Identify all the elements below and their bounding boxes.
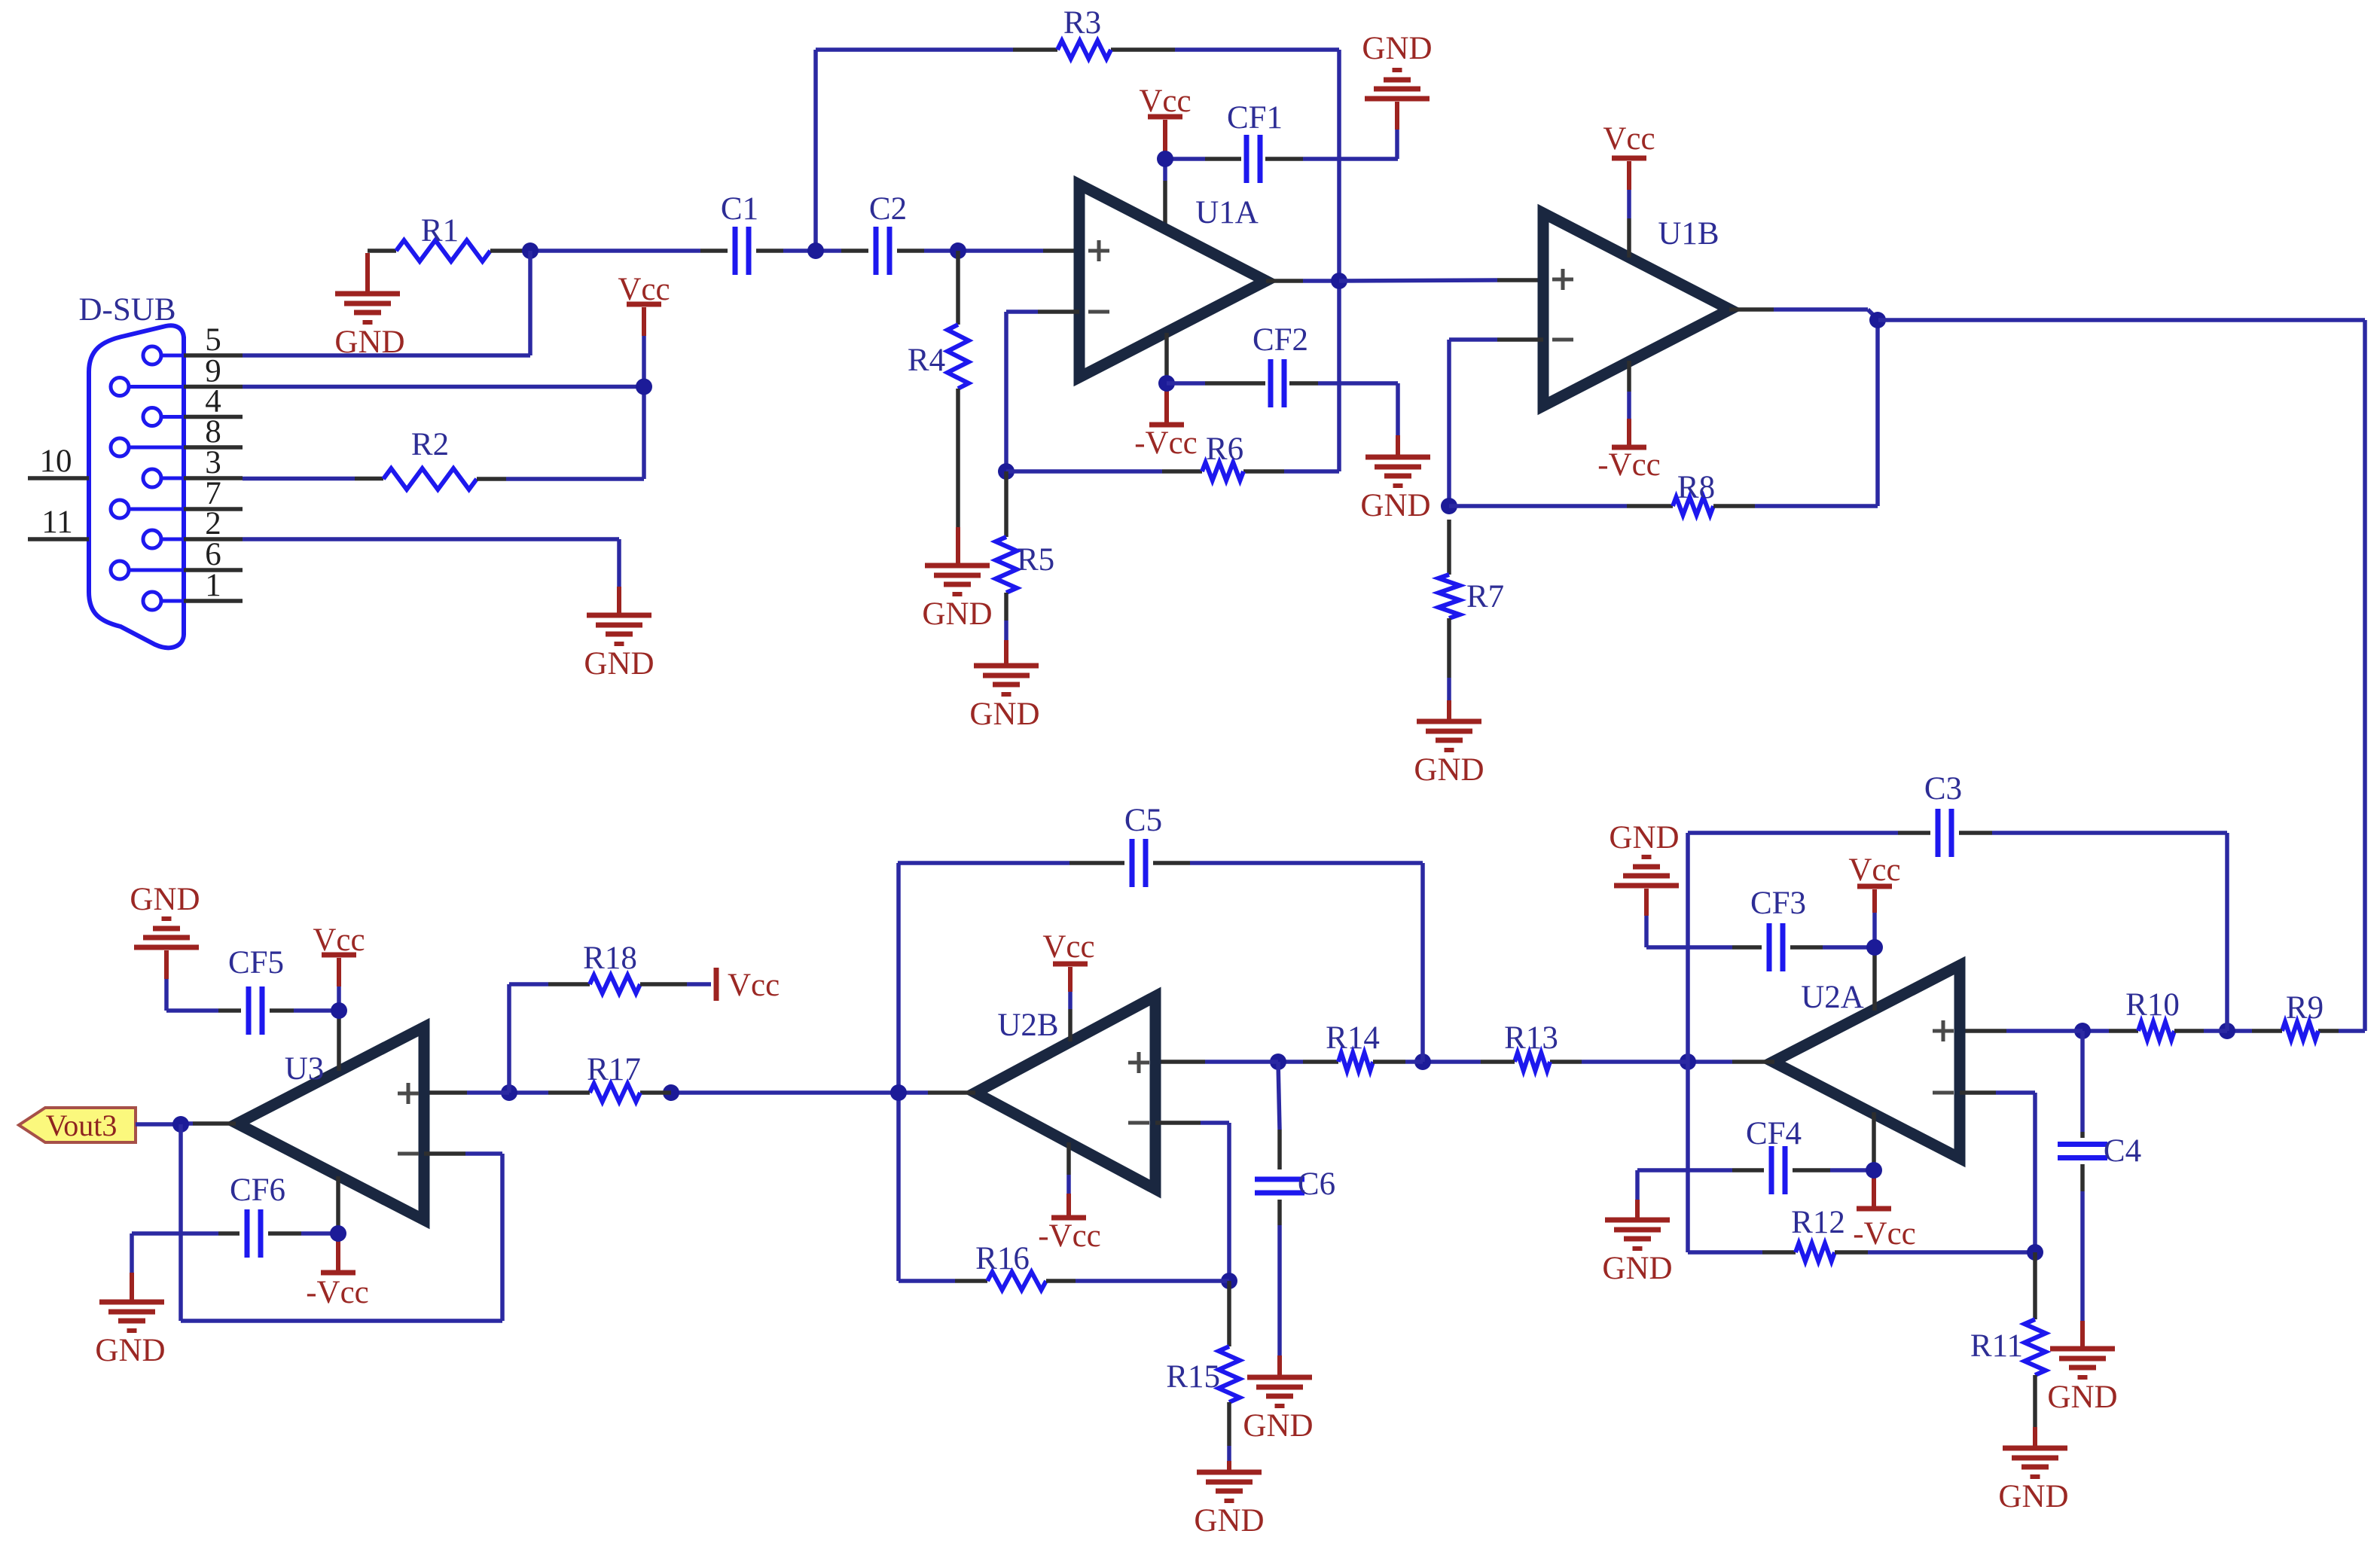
svg-text:U1A: U1A (1195, 195, 1259, 230)
ground GND left of CF4 (1602, 1170, 1672, 1286)
svg-text:R9: R9 (2286, 990, 2324, 1026)
svg-text:Vout3: Vout3 (46, 1108, 117, 1142)
svg-text:-Vcc: -Vcc (306, 1275, 369, 1310)
wire CF1 row (1165, 157, 1398, 161)
capacitor C1 (721, 191, 758, 275)
junction node CF4/-Vcc (1866, 1162, 1882, 1179)
resistor R6 (1162, 431, 1243, 480)
wire U1B output to right edge (1878, 320, 2365, 1031)
wire CF4 row (1637, 1168, 1874, 1172)
svg-text:GND: GND (1609, 820, 1679, 855)
wire C3 right vertical (2225, 833, 2229, 1031)
capacitor C2 (869, 191, 907, 275)
pin 4 of D-SUB (143, 384, 243, 426)
wire C3 branch vertical (1686, 833, 1690, 1252)
wire CF6 row (132, 1231, 338, 1236)
wire R8 row (1449, 320, 1878, 506)
op-amp U1B (1543, 213, 1730, 406)
junction node U2B output/C5 (890, 1084, 907, 1101)
wire R16 row (899, 1279, 1229, 1283)
svg-text:U2B: U2B (997, 1008, 1058, 1043)
ground GND below R15 (1194, 1472, 1264, 1538)
svg-text:8: 8 (205, 414, 221, 450)
connector D-SUB body (78, 292, 184, 648)
svg-text:Vcc: Vcc (1848, 852, 1900, 888)
power Vcc of U3 (313, 922, 365, 1071)
svg-text:U3: U3 (285, 1051, 325, 1087)
junction dot Vcc/CF1 (1157, 151, 1173, 167)
svg-text:C4: C4 (2104, 1133, 2141, 1169)
capacitor C3 (1924, 771, 1962, 857)
capacitor C6 (1255, 1062, 1335, 1202)
pin 6 of D-SUB (111, 537, 243, 579)
junction node U1A output (1331, 273, 1347, 289)
resistor R15 (1166, 1281, 1240, 1472)
power Vcc of U1A (1139, 84, 1191, 229)
junction node CF6/-Vcc (330, 1225, 346, 1242)
resistor R17 (509, 1052, 671, 1102)
svg-text:CF3: CF3 (1750, 886, 1806, 921)
svg-text:R4: R4 (908, 343, 945, 378)
svg-text:R17: R17 (587, 1052, 641, 1087)
svg-text:R10: R10 (2125, 987, 2180, 1023)
wire U2A inverting input (1960, 1093, 2035, 1252)
junction node R7/R8 (1441, 498, 1457, 514)
svg-text:GND: GND (1414, 752, 1484, 788)
resistor R3 (1057, 5, 1111, 59)
wire C3 row (1688, 831, 2227, 835)
wire U1B output (1729, 310, 1878, 320)
wire CF6 left to GND (130, 1233, 134, 1302)
capacitor CF3 (1750, 886, 1806, 971)
svg-text:C1: C1 (721, 191, 758, 227)
junction node R5/R6 (998, 463, 1015, 480)
wire U3 feedback loop (181, 1124, 502, 1321)
power Vcc right of R18 (716, 968, 780, 1003)
power Vcc of U2A (1848, 852, 1900, 1011)
pin 11 of D-SUB (28, 505, 89, 540)
pin 5 of D-SUB (143, 322, 243, 364)
capacitor CF5 (228, 945, 284, 1035)
svg-text:Vcc: Vcc (1139, 84, 1191, 119)
ground GND below R11 (1998, 1448, 2068, 1514)
svg-text:R6: R6 (1206, 431, 1243, 467)
power -Vcc of U2A (1853, 1112, 1916, 1252)
pin 3 of D-SUB (143, 445, 243, 487)
svg-text:CF1: CF1 (1227, 100, 1283, 136)
wire R10 to C4 node (2082, 1029, 2109, 1033)
op-amp U3 (237, 1027, 424, 1220)
junction node R1 right (522, 242, 539, 259)
svg-text:-Vcc: -Vcc (1038, 1218, 1101, 1254)
svg-text:GND: GND (95, 1333, 165, 1368)
resistor R4 (908, 251, 969, 566)
svg-text:GND: GND (1360, 488, 1430, 523)
resistor R16 (955, 1241, 1076, 1290)
junction node Vcc/CF5 (331, 1002, 347, 1019)
svg-text:-Vcc: -Vcc (1853, 1216, 1916, 1252)
svg-text:R1: R1 (421, 213, 459, 249)
junction node pin9/Vcc (636, 379, 652, 395)
power Vcc of U2B (1042, 929, 1094, 1041)
resistor R8 (1627, 470, 1755, 515)
svg-text:C6: C6 (1298, 1166, 1335, 1202)
junction node C3/R9/R10 (2219, 1023, 2235, 1039)
wire R18 branch (509, 984, 548, 1093)
ground GND below R1 (334, 253, 404, 360)
ground GND below R7 (1414, 721, 1484, 788)
pin 2 of D-SUB (143, 506, 243, 548)
junction node Vout3/feedback (172, 1116, 189, 1133)
op-amp U1A (1079, 184, 1266, 377)
ground GND below CF2 (1360, 457, 1430, 523)
wire U1A output (1266, 279, 1339, 283)
wire CF3 row (1646, 945, 1875, 950)
wire U2B output row (671, 1090, 975, 1095)
wire CF5 row (166, 1008, 339, 1013)
wire U1B inverting input (1449, 340, 1543, 506)
power -Vcc of U2B (1038, 1142, 1101, 1254)
svg-text:2: 2 (205, 506, 221, 541)
wire C5 row (898, 861, 1423, 865)
svg-text:11: 11 (41, 505, 72, 540)
svg-text:C3: C3 (1924, 771, 1962, 807)
ground GND below C6 (1243, 1377, 1313, 1444)
power -Vcc of U3 (306, 1176, 369, 1310)
capacitor C5 (1124, 803, 1162, 887)
svg-text:Vcc: Vcc (1603, 121, 1655, 157)
wire U2A output row (1688, 1060, 1774, 1064)
resistor R5 (996, 471, 1054, 666)
svg-text:GND: GND (130, 882, 200, 917)
capacitor CF6 (230, 1172, 285, 1258)
wire U2A + input (1960, 1029, 2082, 1033)
wire R6 row (1006, 469, 1339, 474)
svg-text:R15: R15 (1166, 1359, 1220, 1395)
svg-text:R2: R2 (411, 427, 449, 462)
capacitor CF2 (1253, 322, 1308, 407)
op-amp U2B (975, 996, 1155, 1189)
wire CF2 row (1167, 383, 1398, 457)
pin 7 of D-SUB (111, 476, 243, 518)
ground GND above CF3 (inverted) (1609, 820, 1679, 947)
svg-text:R11: R11 (1970, 1328, 2023, 1364)
resistor R14 (1303, 1020, 1423, 1071)
capacitor CF1 (1227, 100, 1283, 183)
svg-text:Vcc: Vcc (1042, 929, 1094, 965)
pin 10 of D-SUB (28, 444, 89, 479)
junction node U1B output (1869, 312, 1886, 328)
resistor R11 (1970, 1252, 2046, 1448)
wire C6 to GND (1277, 1200, 1282, 1377)
wire R1 to pin5 (528, 251, 532, 355)
svg-text:C2: C2 (869, 191, 907, 227)
wire pin9 row to Vcc (243, 385, 644, 389)
svg-text:GND: GND (584, 646, 654, 682)
svg-text:-Vcc: -Vcc (1134, 425, 1198, 461)
svg-text:R8: R8 (1677, 470, 1715, 505)
junction node R17/R18 (501, 1084, 517, 1101)
wire R14 to C6 node (1278, 1060, 1303, 1064)
wire R13 to C5 node (1423, 1060, 1481, 1064)
ground GND below C4 (2047, 1349, 2117, 1415)
svg-text:GND: GND (1602, 1251, 1672, 1286)
wire U1A output to U1B + (1339, 280, 1543, 281)
power Vcc right of D-SUB (618, 272, 670, 479)
svg-text:GND: GND (1362, 31, 1432, 66)
resistor R12 (1688, 1205, 2035, 1261)
power Vcc of U1B (1603, 121, 1655, 258)
wire Vout3 to U3 output (136, 1124, 236, 1124)
svg-text:CF2: CF2 (1253, 322, 1308, 358)
svg-text:GND: GND (1194, 1503, 1264, 1538)
ground top GND (inverted) at CF1 row (1362, 31, 1432, 159)
resistor R1 (368, 213, 530, 261)
wire vertical R3/output/R6 right leg (1337, 50, 1341, 471)
resistor R7 (1439, 520, 1504, 721)
svg-text:R14: R14 (1326, 1020, 1380, 1056)
svg-text:U1B: U1B (1658, 216, 1719, 252)
resistor R18 (548, 941, 711, 993)
resistor R10 (2109, 987, 2227, 1040)
capacitor CF4 (1746, 1116, 1802, 1194)
svg-text:10: 10 (40, 444, 72, 479)
svg-text:U2A: U2A (1801, 980, 1864, 1015)
wire C5 right vertical (1420, 863, 1425, 1062)
svg-text:R18: R18 (583, 941, 637, 976)
wire R9 to C3 node (2227, 1029, 2252, 1033)
svg-text:CF4: CF4 (1746, 1116, 1802, 1151)
svg-text:GND: GND (2047, 1380, 2117, 1415)
svg-text:R3: R3 (1063, 5, 1101, 41)
junction node C2/R4 (950, 242, 966, 259)
junction node R17 right (663, 1084, 679, 1101)
junction node C5/R13/R14 (1414, 1054, 1431, 1070)
svg-text:GND: GND (1243, 1408, 1313, 1444)
junction node C6/R14 (1270, 1054, 1286, 1070)
pin 1 of D-SUB (143, 568, 243, 610)
svg-text:CF6: CF6 (230, 1172, 285, 1208)
wire C4 to GND (2080, 1164, 2085, 1349)
svg-text:1: 1 (205, 568, 221, 603)
svg-text:6: 6 (205, 537, 221, 572)
svg-text:R7: R7 (1466, 579, 1504, 614)
resistor R13 (1481, 1020, 1688, 1071)
svg-text:CF5: CF5 (228, 945, 284, 980)
wire vertical C1-C2 junction to R3 (813, 50, 818, 251)
svg-text:Vcc: Vcc (728, 968, 780, 1003)
svg-text:C5: C5 (1124, 803, 1162, 838)
svg-text:D-SUB: D-SUB (78, 292, 175, 328)
wire main input row (530, 249, 1079, 253)
ground GND above CF5 (inverted) (130, 882, 200, 1011)
junction node R15/R16 (1221, 1273, 1237, 1289)
capacitor C4 (2058, 1031, 2141, 1169)
ground GND below pin2 wire (584, 615, 654, 682)
wire R17 to U3 + (424, 1090, 509, 1095)
wire U2B inverting input (1155, 1123, 1229, 1281)
junction node R11/R12 (2027, 1244, 2043, 1261)
svg-text:R12: R12 (1791, 1205, 1845, 1240)
resistor R2 on pin3 row (243, 427, 644, 489)
junction node Vcc/CF3 (1866, 939, 1883, 956)
wire U2B + input (1155, 1060, 1278, 1064)
svg-text:5: 5 (205, 322, 221, 358)
svg-text:3: 3 (205, 445, 221, 480)
junction dot -Vcc/CF2 (1158, 375, 1175, 392)
ground GND below R4 (922, 566, 992, 632)
svg-text:-Vcc: -Vcc (1597, 447, 1661, 483)
ground GND below R5 (969, 666, 1039, 732)
junction node C3 branch (1680, 1054, 1696, 1070)
wire R3 feedback top (816, 47, 1339, 52)
wire U1A inverting input (1006, 312, 1079, 471)
wire U2B feedback vertical (896, 863, 901, 1281)
svg-text:GND: GND (922, 596, 992, 632)
pin 8 of D-SUB (111, 414, 243, 456)
svg-text:R5: R5 (1017, 542, 1054, 578)
ground GND below CF6 left (95, 1302, 165, 1368)
svg-text:R16: R16 (975, 1241, 1030, 1276)
junction node C4/R10 (2074, 1023, 2091, 1039)
op-amp U2A (1773, 965, 1960, 1158)
svg-text:R13: R13 (1504, 1020, 1558, 1056)
net label Vout3 flag (19, 1108, 136, 1142)
wire pin5 row (243, 353, 530, 358)
junction node C1-C2/R3 (807, 242, 824, 259)
pin 9 of D-SUB (111, 354, 243, 396)
power -Vcc of U1B (1597, 361, 1661, 483)
svg-text:GND: GND (969, 697, 1039, 732)
resistor R9 (2252, 990, 2324, 1040)
svg-text:GND: GND (1998, 1479, 2068, 1514)
wire pin2 row to GND (243, 539, 619, 615)
wire R9 row right (2318, 1029, 2365, 1033)
power -Vcc of U1A (1134, 333, 1198, 461)
